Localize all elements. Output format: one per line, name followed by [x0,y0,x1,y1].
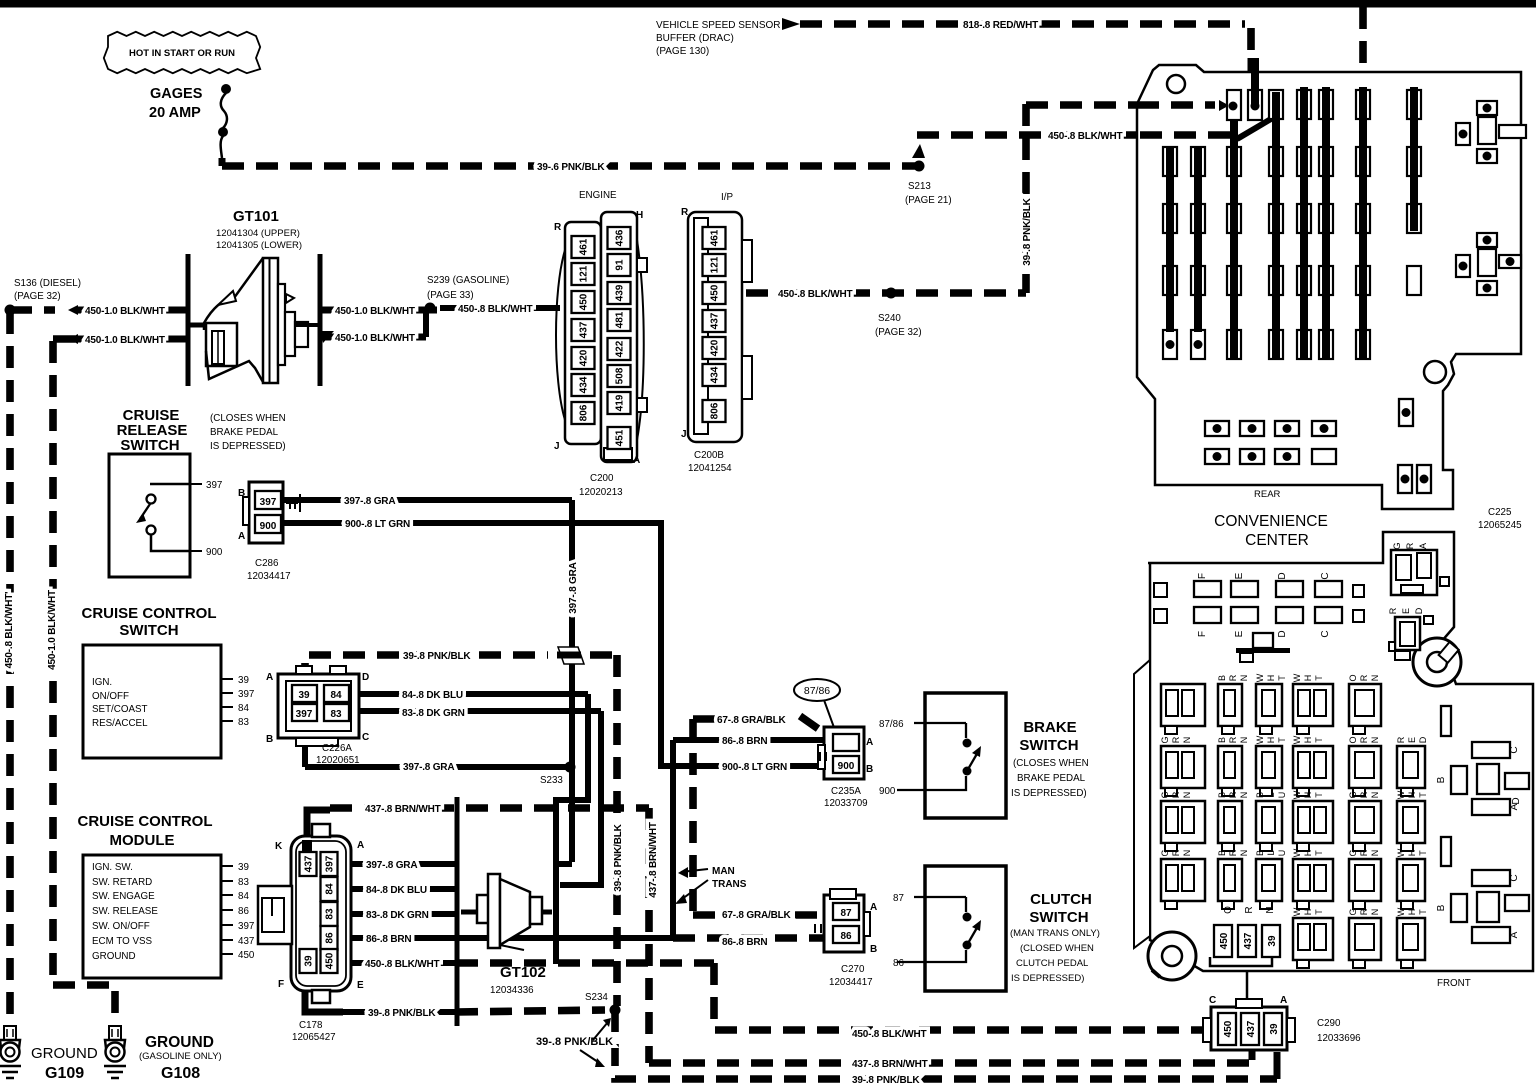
svg-text:R: R [1405,542,1415,549]
svg-text:J: J [681,429,687,440]
svg-text:GROUND: GROUND [31,1045,98,1062]
svg-text:450: 450 [238,950,255,961]
svg-text:(CLOSES WHEN: (CLOSES WHEN [1013,758,1089,769]
svg-text:SW. ON/OFF: SW. ON/OFF [92,921,150,932]
svg-text:83-.8 DK GRN: 83-.8 DK GRN [366,910,429,921]
svg-text:39-.8 PNK/BLK: 39-.8 PNK/BLK [1022,197,1033,265]
svg-text:39-.8 PNK/BLK: 39-.8 PNK/BLK [613,823,624,891]
svg-text:12065245: 12065245 [1478,520,1522,531]
svg-text:437-.8 BRN/WHT: 437-.8 BRN/WHT [852,1059,928,1070]
svg-text:BRAKE PEDAL: BRAKE PEDAL [210,427,279,438]
svg-text:T: T [1418,909,1428,915]
svg-text:C235A: C235A [831,786,861,797]
svg-text:O: O [1223,906,1234,914]
svg-text:(CLOSED WHEN: (CLOSED WHEN [1020,943,1094,954]
svg-text:R: R [1359,908,1369,915]
svg-text:H: H [1407,909,1417,916]
svg-text:461: 461 [579,238,590,255]
svg-text:C: C [1209,995,1216,1006]
svg-text:A: A [633,455,640,466]
svg-text:E: E [357,980,364,991]
svg-text:91: 91 [615,259,626,271]
svg-text:12033709: 12033709 [824,798,868,809]
svg-text:A: A [357,840,364,851]
svg-text:IGN. SW.: IGN. SW. [92,862,133,873]
svg-text:(CLOSES WHEN: (CLOSES WHEN [210,413,286,424]
svg-text:83: 83 [238,717,249,728]
svg-text:CENTER: CENTER [1245,532,1309,549]
svg-text:12065427: 12065427 [292,1032,336,1043]
svg-text:420: 420 [710,339,721,356]
svg-text:BUFFER (DRAC): BUFFER (DRAC) [656,33,734,44]
svg-text:CLUTCH: CLUTCH [1030,891,1092,908]
svg-text:ENGINE: ENGINE [579,190,617,201]
svg-text:W: W [1396,907,1406,916]
svg-text:R: R [1359,849,1369,856]
svg-text:900: 900 [206,547,223,558]
svg-text:GROUND: GROUND [92,951,136,962]
svg-text:TRANS: TRANS [712,879,747,890]
svg-text:C226A: C226A [322,743,352,754]
svg-text:G: G [1160,736,1170,743]
svg-text:R: R [1359,736,1369,743]
svg-text:SWITCH: SWITCH [1019,737,1078,754]
svg-text:R: R [554,222,562,233]
svg-text:A: A [1418,543,1428,549]
svg-text:39-.8 PNK/BLK: 39-.8 PNK/BLK [536,1036,613,1048]
svg-text:86-.8 BRN: 86-.8 BRN [722,937,767,948]
svg-text:900-.8 LT GRN: 900-.8 LT GRN [722,762,787,773]
svg-text:(MAN TRANS ONLY): (MAN TRANS ONLY) [1010,928,1100,939]
svg-text:C: C [1509,874,1520,881]
svg-text:12034417: 12034417 [829,977,873,988]
svg-text:450-1.0 BLK/WHT: 450-1.0 BLK/WHT [85,306,165,317]
svg-text:83: 83 [238,877,249,888]
svg-text:450-.8 BLK/WHT: 450-.8 BLK/WHT [1048,131,1123,142]
svg-text:12041304 (UPPER): 12041304 (UPPER) [216,228,300,239]
svg-text:450-.8 BLK/WHT: 450-.8 BLK/WHT [458,304,533,315]
svg-text:39: 39 [1269,1023,1280,1035]
svg-text:12020213: 12020213 [579,487,623,498]
svg-text:N: N [1239,675,1249,682]
svg-text:B: B [1217,792,1227,798]
svg-text:D: D [1414,607,1424,614]
svg-text:437-.8 BRN/WHT: 437-.8 BRN/WHT [648,822,659,898]
svg-text:806: 806 [710,402,721,419]
svg-text:N: N [1370,675,1380,682]
svg-text:437: 437 [1246,1020,1257,1037]
svg-text:508: 508 [615,367,626,384]
svg-text:CONVENIENCE: CONVENIENCE [1214,513,1328,530]
svg-text:39: 39 [298,690,310,701]
svg-text:12033696: 12033696 [1317,1033,1361,1044]
svg-text:HOT IN START OR RUN: HOT IN START OR RUN [129,48,235,59]
svg-text:86: 86 [893,958,904,969]
svg-text:N: N [1182,792,1192,799]
svg-text:397-.8 GRA: 397-.8 GRA [403,762,454,773]
svg-text:39: 39 [1267,935,1278,947]
svg-text:MAN: MAN [712,866,735,877]
svg-text:W: W [1396,790,1406,799]
svg-text:B: B [1255,850,1265,856]
svg-text:G: G [1348,908,1358,915]
svg-text:L: L [1266,850,1276,855]
svg-text:12041254: 12041254 [688,463,732,474]
svg-text:F: F [1197,573,1208,579]
svg-text:S240: S240 [878,313,901,324]
svg-text:N: N [1239,850,1249,857]
svg-text:437: 437 [304,855,315,872]
svg-text:IS DEPRESSED): IS DEPRESSED) [1011,973,1084,984]
svg-text:A: A [238,531,245,542]
svg-text:SWITCH: SWITCH [119,622,178,639]
svg-text:SWITCH: SWITCH [120,437,179,454]
svg-text:N: N [1182,850,1192,857]
svg-text:S213: S213 [908,181,931,192]
svg-text:W: W [1292,907,1302,916]
svg-text:IGN.: IGN. [92,677,112,688]
svg-text:437: 437 [579,321,590,338]
svg-text:437: 437 [710,312,721,329]
svg-text:83-.8 DK GRN: 83-.8 DK GRN [402,708,465,719]
svg-text:397-.8 GRA: 397-.8 GRA [344,496,395,507]
svg-text:T: T [1314,850,1324,856]
svg-text:T: T [1314,737,1324,743]
svg-text:481: 481 [615,311,626,328]
svg-text:(PAGE 130): (PAGE 130) [656,46,709,57]
svg-text:SW. ENGAGE: SW. ENGAGE [92,891,155,902]
svg-text:G108: G108 [161,1065,200,1082]
svg-text:R: R [1396,736,1406,743]
svg-text:C200B: C200B [694,450,724,461]
svg-text:BRAKE PEDAL: BRAKE PEDAL [1017,773,1086,784]
svg-text:12020651: 12020651 [316,755,360,766]
svg-text:C286: C286 [255,558,279,569]
svg-text:GT102: GT102 [500,964,546,981]
svg-text:J: J [554,441,560,452]
svg-text:397-.8 GRA: 397-.8 GRA [366,860,417,871]
svg-text:450-.8 BLK/WHT: 450-.8 BLK/WHT [365,959,440,970]
svg-text:84-.8 DK BLU: 84-.8 DK BLU [402,690,463,701]
svg-text:N: N [1370,850,1380,857]
svg-text:39-.8 PNK/BLK: 39-.8 PNK/BLK [368,1008,436,1019]
svg-text:R: R [1388,607,1398,614]
svg-text:439: 439 [615,284,626,301]
svg-text:H: H [636,210,643,221]
svg-text:B: B [1217,675,1227,681]
svg-text:C270: C270 [841,964,865,975]
svg-text:W: W [1292,790,1302,799]
svg-text:39-.8 PNK/BLK: 39-.8 PNK/BLK [852,1075,920,1086]
svg-text:84-.8 DK BLU: 84-.8 DK BLU [366,885,427,896]
svg-text:C225: C225 [1488,507,1512,518]
svg-text:83: 83 [325,908,336,920]
svg-text:397-.8 GRA: 397-.8 GRA [568,562,579,613]
svg-text:12034336: 12034336 [490,985,534,996]
svg-text:87/86: 87/86 [879,719,904,730]
svg-text:87: 87 [893,893,904,904]
svg-text:B: B [266,734,273,745]
svg-text:39: 39 [238,675,249,686]
svg-text:H: H [1407,850,1417,857]
svg-text:L: L [1266,792,1276,797]
svg-text:B: B [1436,776,1447,783]
svg-text:C: C [362,732,369,743]
svg-text:397: 397 [206,480,222,491]
svg-text:N: N [1370,909,1380,916]
svg-text:T: T [1277,675,1287,681]
svg-text:GAGES: GAGES [150,86,203,102]
svg-text:D: D [1418,736,1428,743]
svg-text:MODULE: MODULE [110,832,175,849]
svg-text:SW. RELEASE: SW. RELEASE [92,906,158,917]
svg-text:G: G [1348,849,1358,856]
svg-text:420: 420 [579,349,590,366]
svg-text:(PAGE 21): (PAGE 21) [905,195,952,206]
svg-text:G: G [1348,791,1358,798]
svg-text:IS DEPRESSED): IS DEPRESSED) [210,441,286,452]
svg-text:D: D [362,672,369,683]
svg-text:20 AMP: 20 AMP [149,105,201,121]
svg-text:U: U [1277,850,1287,857]
svg-text:450-.8 BLK/WHT: 450-.8 BLK/WHT [852,1029,927,1040]
svg-text:86: 86 [325,932,336,944]
svg-text:900: 900 [879,786,896,797]
svg-text:900: 900 [838,761,855,772]
svg-text:121: 121 [710,256,721,273]
svg-text:450-1.0 BLK/WHT: 450-1.0 BLK/WHT [85,335,165,346]
svg-text:R: R [1171,791,1181,798]
svg-text:451: 451 [615,429,626,446]
svg-text:H: H [1303,675,1313,682]
svg-text:D: D [1511,797,1522,804]
svg-text:39-.8 PNK/BLK: 39-.8 PNK/BLK [403,651,471,662]
svg-text:E: E [1234,572,1245,579]
svg-text:83: 83 [330,709,342,720]
svg-text:422: 422 [615,340,626,357]
svg-text:450-1.0 BLK/WHT: 450-1.0 BLK/WHT [47,590,58,670]
svg-text:FRONT: FRONT [1437,978,1471,989]
svg-text:450-1.0 BLK/WHT: 450-1.0 BLK/WHT [335,333,415,344]
svg-text:A: A [1509,931,1520,938]
svg-text:G109: G109 [45,1065,84,1082]
svg-text:VEHICLE SPEED SENSOR: VEHICLE SPEED SENSOR [656,20,780,31]
svg-text:E: E [1234,630,1245,637]
svg-text:H: H [1407,792,1417,799]
svg-text:T: T [1418,850,1428,856]
svg-text:84: 84 [238,703,249,714]
svg-text:ON/OFF: ON/OFF [92,691,129,702]
svg-text:(GASOLINE ONLY): (GASOLINE ONLY) [139,1051,222,1062]
svg-text:R: R [1171,736,1181,743]
svg-text:84: 84 [325,883,336,895]
svg-text:W: W [1292,848,1302,857]
svg-text:900: 900 [260,521,277,532]
svg-text:CRUISE CONTROL: CRUISE CONTROL [78,813,213,830]
svg-text:W: W [1396,848,1406,857]
svg-text:S136 (DIESEL): S136 (DIESEL) [14,278,81,289]
svg-text:RES/ACCEL: RES/ACCEL [92,718,148,729]
svg-text:D: D [1277,630,1288,637]
svg-text:R: R [1171,849,1181,856]
svg-text:86-.8 BRN: 86-.8 BRN [366,934,411,945]
svg-text:436: 436 [615,229,626,246]
svg-text:437-.8 BRN/WHT: 437-.8 BRN/WHT [365,804,441,815]
svg-text:E: E [1401,608,1411,614]
svg-text:39: 39 [238,862,249,873]
svg-text:H: H [1266,737,1276,744]
svg-text:R: R [1228,849,1238,856]
svg-text:B: B [866,764,873,775]
svg-text:T: T [1418,792,1428,798]
svg-text:O: O [1348,736,1358,743]
svg-text:R: R [681,207,689,218]
svg-text:F: F [278,979,284,990]
svg-text:CLUTCH PEDAL: CLUTCH PEDAL [1016,958,1088,969]
svg-text:818-.8 RED/WHT: 818-.8 RED/WHT [963,20,1038,31]
svg-text:H: H [1303,737,1313,744]
svg-text:450: 450 [579,293,590,310]
svg-text:C: C [1320,630,1331,637]
svg-text:397: 397 [238,921,254,932]
svg-text:437: 437 [1243,932,1254,949]
svg-text:R: R [1228,674,1238,681]
svg-text:R: R [1244,906,1255,913]
svg-text:ECM TO VSS: ECM TO VSS [92,936,153,947]
svg-text:900-.8 LT GRN: 900-.8 LT GRN [345,519,410,530]
svg-text:12034417: 12034417 [247,571,291,582]
svg-text:T: T [1314,909,1324,915]
svg-text:IS DEPRESSED): IS DEPRESSED) [1011,788,1087,799]
svg-text:S239 (GASOLINE): S239 (GASOLINE) [427,275,509,286]
svg-text:U: U [1277,792,1287,799]
svg-text:434: 434 [710,366,721,383]
svg-text:E: E [1407,737,1417,743]
svg-text:W: W [1255,673,1265,682]
svg-text:R: R [1359,791,1369,798]
svg-text:D: D [1277,572,1288,579]
svg-text:84: 84 [330,690,342,701]
svg-text:450-.8 BLK/WHT': 450-.8 BLK/WHT' [4,592,15,669]
svg-text:437: 437 [238,936,254,947]
svg-text:12041305 (LOWER): 12041305 (LOWER) [216,240,302,251]
svg-text:450: 450 [1223,1020,1234,1037]
svg-text:A: A [870,902,877,913]
svg-text:B: B [1255,792,1265,798]
svg-text:B: B [870,944,877,955]
svg-text:BRAKE: BRAKE [1023,719,1076,736]
svg-text:SWITCH: SWITCH [1029,909,1088,926]
svg-text:R: R [1228,791,1238,798]
svg-text:A: A [866,737,873,748]
svg-text:N: N [1265,906,1276,913]
svg-text:B: B [238,488,245,499]
svg-text:86: 86 [840,931,852,942]
svg-text:C200: C200 [590,473,614,484]
svg-text:W: W [1255,735,1265,744]
svg-text:67-.8 GRA/BLK: 67-.8 GRA/BLK [717,715,787,726]
svg-text:(PAGE 32): (PAGE 32) [14,291,61,302]
svg-text:S234: S234 [585,992,608,1003]
svg-text:H: H [1303,792,1313,799]
svg-text:450: 450 [325,952,336,969]
svg-text:SET/COAST: SET/COAST [92,704,148,715]
svg-text:N: N [1370,792,1380,799]
svg-text:H: H [1266,675,1276,682]
svg-text:REAR: REAR [1254,489,1281,500]
svg-text:GROUND: GROUND [145,1034,214,1051]
svg-text:C: C [1320,572,1331,579]
svg-text:397: 397 [238,689,254,700]
svg-text:S233: S233 [540,775,563,786]
svg-text:C290: C290 [1317,1018,1341,1029]
svg-text:G: G [1392,542,1402,549]
svg-text:G: G [1160,849,1170,856]
svg-text:GT101: GT101 [233,208,279,225]
svg-text:F: F [1197,631,1208,637]
svg-text:86: 86 [238,906,249,917]
svg-text:T: T [1314,792,1324,798]
svg-text:N: N [1239,737,1249,744]
svg-text:461: 461 [710,229,721,246]
svg-text:B: B [1436,904,1447,911]
svg-text:450-.8 BLK/WHT: 450-.8 BLK/WHT [778,289,853,300]
svg-text:N: N [1239,792,1249,799]
svg-text:H: H [1303,909,1313,916]
svg-text:87/86: 87/86 [804,685,830,697]
svg-text:R: R [1228,736,1238,743]
svg-text:397: 397 [325,855,336,872]
svg-text:A: A [1280,995,1287,1006]
svg-text:397: 397 [296,709,313,720]
svg-text:(PAGE 33): (PAGE 33) [427,290,474,301]
svg-text:419: 419 [615,394,626,411]
svg-text:H: H [1303,850,1313,857]
svg-text:CRUISE CONTROL: CRUISE CONTROL [82,605,217,622]
svg-text:N: N [1182,737,1192,744]
svg-text:84: 84 [238,891,249,902]
svg-text:B: B [1217,850,1227,856]
svg-text:121: 121 [579,265,590,282]
svg-text:W: W [1292,735,1302,744]
svg-text:A: A [266,672,273,683]
svg-text:B: B [1217,737,1227,743]
svg-text:R: R [1359,674,1369,681]
svg-text:450: 450 [1219,932,1230,949]
svg-text:67-.8 GRA/BLK: 67-.8 GRA/BLK [722,910,792,921]
svg-text:SW. RETARD: SW. RETARD [92,877,152,888]
svg-text:T: T [1277,737,1287,743]
svg-text:K: K [275,841,283,852]
svg-text:N: N [1370,737,1380,744]
svg-text:39: 39 [304,955,315,967]
svg-text:(PAGE 32): (PAGE 32) [875,327,922,338]
svg-text:O: O [1348,674,1358,681]
svg-text:39-.6 PNK/BLK: 39-.6 PNK/BLK [537,162,605,173]
svg-text:806: 806 [579,404,590,421]
svg-text:W: W [1292,673,1302,682]
svg-text:I/P: I/P [721,192,733,203]
svg-text:450: 450 [710,284,721,301]
svg-text:T: T [1314,675,1324,681]
svg-text:C178: C178 [299,1020,323,1031]
svg-text:86-.8 BRN: 86-.8 BRN [722,736,767,747]
svg-text:C: C [1509,746,1520,753]
svg-text:87: 87 [840,908,852,919]
svg-text:G: G [1160,791,1170,798]
svg-text:397: 397 [260,497,277,508]
svg-text:434: 434 [579,376,590,393]
